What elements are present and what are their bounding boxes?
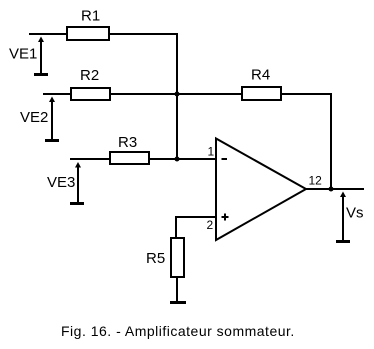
wire R1 to node A [110, 33, 178, 160]
output wire [305, 188, 364, 190]
ground R5 [170, 301, 186, 304]
ground VE2 [45, 139, 59, 142]
resistor R1 [67, 27, 109, 40]
svg-text:2: 2 [207, 218, 214, 232]
svg-text:VE2: VE2 [20, 109, 48, 126]
resistor R2 [71, 88, 110, 100]
svg-text:R5: R5 [146, 250, 165, 267]
voltage source VE3 arrow [75, 162, 81, 202]
voltage source VE2 arrow [49, 97, 55, 140]
ground VE1 [34, 73, 48, 76]
wire VE2 input [43, 93, 70, 95]
node C output junction [329, 187, 334, 192]
wire to non-inverting input [175, 216, 216, 238]
wire VE3 input [70, 158, 109, 160]
output Vs arrow [340, 192, 346, 241]
node A junction [175, 92, 180, 97]
wire R2 to R4 [111, 93, 241, 95]
svg-text:VE3: VE3 [47, 174, 75, 191]
svg-text:VE1: VE1 [9, 46, 37, 63]
ground VE3 [70, 202, 84, 205]
svg-text:R1: R1 [81, 8, 100, 25]
resistor R3 [110, 152, 149, 164]
resistor R4 [242, 87, 281, 100]
wire R5 to ground [176, 277, 178, 301]
svg-text:12: 12 [309, 174, 323, 188]
node B junction [175, 157, 180, 162]
svg-text:1: 1 [208, 145, 215, 159]
resistor R5 [171, 238, 184, 277]
wire R4 to output node [282, 93, 332, 189]
op-amp plus sign [222, 214, 229, 221]
op-amp minus sign [222, 158, 228, 160]
op-amp U1 [216, 139, 306, 241]
voltage source VE1 arrow [38, 37, 44, 74]
wire R3 to op-amp [150, 158, 216, 160]
ground Vs [336, 240, 350, 243]
wire VE1 input [29, 33, 67, 35]
svg-text:Fig. 16. - Amplificateur somma: Fig. 16. - Amplificateur sommateur. [61, 323, 295, 339]
svg-text:R3: R3 [118, 134, 137, 151]
svg-text:R4: R4 [251, 67, 270, 84]
svg-text:R2: R2 [80, 67, 99, 84]
svg-text:Vs: Vs [346, 205, 364, 222]
